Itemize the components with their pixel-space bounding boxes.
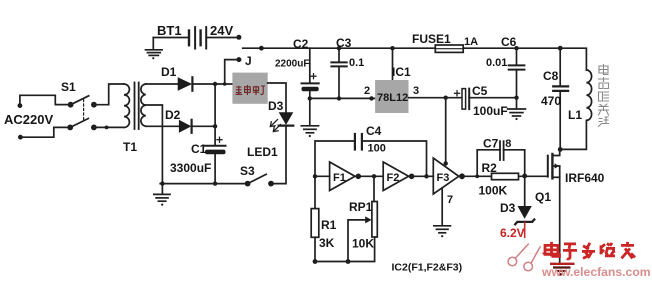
node junction VDD tap	[444, 96, 448, 100]
resistor R2	[492, 173, 519, 179]
label C4	[366, 124, 382, 138]
wire C2/C3 rail to IC1 pin2	[310, 97, 375, 99]
transistor Q1 channel bar	[551, 154, 553, 178]
svg-text:10K: 10K	[352, 237, 374, 251]
wire ground to battery negative	[153, 37, 188, 39]
ground symbol Q1 source (dark red)	[550, 264, 575, 276]
transistor Q1 source stub	[554, 176, 560, 178]
svg-text:C8: C8	[543, 69, 559, 83]
label D3 (LED)	[268, 99, 284, 113]
label F3	[437, 172, 450, 184]
transistor Q1 body stub with arrow	[554, 163, 560, 168]
svg-text:IC2(F1,F2&F3): IC2(F1,F2&F3)	[392, 262, 463, 274]
regulator IC1 box	[375, 48, 408, 113]
label 100uF	[473, 104, 508, 118]
svg-text:IC1: IC1	[392, 65, 411, 79]
battery BT1 ground symbol	[146, 38, 163, 60]
potentiometer RP1 wiper arm	[348, 216, 372, 261]
wire R2 to gate	[519, 175, 547, 177]
svg-text:7: 7	[447, 194, 453, 206]
label F2	[387, 172, 400, 184]
zener diode D3	[515, 206, 534, 224]
svg-text:Q1: Q1	[535, 190, 551, 204]
capacitor C8	[553, 48, 568, 149]
label 10K	[352, 237, 374, 251]
label 100 (C4 value)	[368, 143, 386, 155]
label RP1	[349, 200, 373, 214]
wire zener to ground (red)	[525, 223, 560, 254]
svg-text:78L12: 78L12	[377, 92, 408, 104]
label Q1	[535, 190, 551, 204]
node junction D1 output rail	[213, 82, 217, 86]
switch S3	[245, 174, 274, 186]
svg-text:BT1: BT1	[157, 23, 182, 38]
watermark elecfans logo circle	[498, 238, 544, 284]
label BT1	[157, 23, 182, 38]
node junction C3 bottom	[337, 96, 341, 100]
node junction drain / tank	[558, 147, 563, 152]
svg-text:100uF: 100uF	[473, 104, 508, 118]
wire S1 gang dotted link	[83, 100, 85, 120]
svg-text:D2: D2	[165, 108, 181, 122]
capacitor C3	[331, 48, 346, 98]
svg-text:FUSE1: FUSE1	[412, 32, 451, 46]
transistor Q1 MOSFET gate bar	[547, 156, 549, 177]
wire D1 cathode to relay box	[192, 83, 232, 85]
node AC220V input top terminal	[18, 103, 23, 108]
node junction C2 to regulator input wire	[308, 96, 312, 100]
wire zener drop	[524, 176, 526, 206]
potentiometer RP1	[372, 176, 377, 237]
svg-text:J: J	[245, 54, 252, 68]
node AC220V input bottom terminal	[18, 135, 23, 140]
capacitor C7 branch right riser	[504, 150, 525, 176]
wire relay coil J tap riser	[225, 60, 237, 84]
node junction RP1 tap	[372, 174, 376, 178]
svg-text:F2: F2	[387, 172, 400, 184]
node battery positive terminal	[236, 35, 241, 40]
svg-text:3K: 3K	[319, 236, 335, 250]
svg-text:0.1: 0.1	[349, 57, 364, 69]
node bus junction C6	[514, 46, 518, 50]
label D1	[161, 65, 177, 79]
label relay 继电器J (drawn glyphs)	[236, 86, 264, 95]
LED D3 emission arrows	[270, 120, 280, 132]
wire top bus right of fuse	[463, 48, 586, 70]
ground symbol under bus	[154, 184, 170, 206]
capacitor C6	[509, 48, 525, 97]
svg-text:RP1: RP1	[349, 200, 373, 214]
wire AC top terminal to S1 pole	[20, 95, 70, 105]
label IC2(F1,F2&F3)	[392, 262, 463, 274]
svg-text:D3: D3	[500, 201, 516, 215]
node junction wiper bottom	[346, 259, 351, 264]
label 2200uF	[275, 59, 309, 70]
node F1 output	[356, 174, 362, 180]
svg-text:R2: R2	[482, 161, 498, 175]
LED D3	[279, 112, 294, 125]
node junction F1 input	[313, 174, 317, 178]
wire AC bottom terminal to S1 pole	[20, 127, 69, 137]
label 3K	[319, 236, 335, 250]
wire IC1 pin3 output	[409, 97, 462, 99]
svg-text:T1: T1	[123, 140, 137, 154]
svg-text:C3: C3	[336, 36, 352, 50]
svg-text:0.01: 0.01	[486, 57, 507, 69]
fuse FUSE1	[435, 45, 463, 52]
label R2	[482, 161, 498, 175]
wire secondary top to D1 anode	[146, 83, 178, 85]
wire F1 input	[315, 175, 330, 177]
wire oscillator bottom rail	[315, 237, 375, 262]
node junction gate / zener	[522, 174, 527, 179]
wire C1 to ground bus	[214, 154, 216, 183]
label 电磁能发送 (vertical, drawn glyphs)	[599, 65, 609, 127]
svg-text:3300uF: 3300uF	[170, 161, 211, 175]
label 1A	[464, 36, 478, 48]
inverter F2	[383, 162, 408, 191]
label T1	[123, 140, 137, 154]
svg-text:C1: C1	[191, 142, 207, 156]
label 0.1	[349, 57, 364, 69]
wire S1 lower to transformer primary bottom	[94, 126, 124, 128]
svg-text:C7: C7	[483, 137, 499, 151]
watermark text www.elecfans.com	[541, 265, 651, 279]
watermark text 电子发烧友 (drawn glyphs)	[545, 242, 635, 259]
ground symbol under C2	[301, 126, 318, 137]
label C1	[191, 142, 207, 156]
node bus junction C3	[337, 46, 341, 50]
svg-text:1A: 1A	[464, 36, 478, 48]
svg-text:2200uF: 2200uF	[275, 59, 309, 70]
label 24V	[210, 23, 233, 38]
svg-text:24V: 24V	[210, 23, 233, 38]
svg-text:3: 3	[413, 85, 419, 97]
svg-text:C2: C2	[293, 37, 309, 51]
svg-text:470: 470	[541, 94, 561, 108]
wire ground bus	[160, 183, 247, 185]
node junction C4 feedback	[424, 174, 428, 178]
svg-text:D3: D3	[268, 99, 284, 113]
label C6	[501, 35, 517, 49]
label S1	[61, 80, 76, 94]
wire S3 to LED cathode riser	[271, 126, 286, 184]
wire F3 output to R2	[462, 175, 494, 177]
capacitor C4	[355, 134, 362, 150]
wire Q1 source down	[559, 166, 561, 262]
battery BT1 plates	[189, 27, 206, 48]
label R1	[321, 218, 337, 232]
svg-text:S3: S3	[240, 164, 255, 178]
wire C4 right to F2 output node	[362, 141, 427, 176]
wire C4 top branch	[315, 141, 355, 209]
label C3	[336, 36, 352, 50]
relay K1 box	[232, 73, 267, 104]
wire relay output to LED anode	[268, 83, 286, 112]
label 78L12	[377, 92, 408, 104]
node F2 output	[409, 174, 415, 180]
wire secondary center tap	[146, 105, 163, 184]
svg-text:F1: F1	[333, 172, 346, 184]
label C1 plus	[217, 137, 222, 142]
label 6.2V	[500, 226, 525, 240]
switch S1 (lower pole)	[67, 119, 97, 131]
wire rectifier output rail down to C1	[214, 84, 216, 145]
capacitor C1 (electrolytic)	[205, 146, 226, 155]
label pin 2	[364, 85, 370, 97]
wire secondary bottom to D2 anode	[146, 125, 179, 127]
inverter F3	[433, 158, 459, 194]
svg-text:8: 8	[505, 138, 511, 150]
transformer T1 core	[135, 83, 139, 130]
transistor Q1 drain stub	[554, 149, 560, 155]
transformer T1 primary winding	[124, 84, 129, 127]
label C5 plus	[455, 91, 460, 96]
wire VDD drop to IC2 pin 14	[445, 98, 447, 164]
svg-text:L1: L1	[568, 108, 582, 122]
ground symbol under C6	[508, 98, 526, 120]
label 3300uF	[170, 161, 211, 175]
label FUSE1	[412, 32, 451, 46]
node bus junction IC1	[390, 46, 394, 50]
node junction C7 left	[475, 174, 479, 178]
wire +24V top bus left of fuse	[243, 47, 436, 49]
wire F2 output to F3 input	[409, 175, 434, 177]
label C8	[543, 69, 559, 83]
node junction C6 bottom	[514, 96, 518, 100]
node IC1 pin2 terminal	[369, 96, 373, 100]
wire F1 output to F2 input	[355, 175, 383, 177]
svg-text:100K: 100K	[479, 184, 508, 198]
svg-text:R1: R1	[321, 218, 337, 232]
svg-text:C6: C6	[501, 35, 517, 49]
label IC1	[392, 65, 411, 79]
label S3	[240, 164, 255, 178]
svg-text:C4: C4	[366, 124, 382, 138]
inverter F1	[330, 162, 355, 191]
node junction R1 bottom	[313, 259, 318, 264]
diode D2	[179, 120, 192, 133]
svg-text:www.elecfans.com: www.elecfans.com	[541, 265, 651, 279]
wire F3 ground pin	[441, 188, 443, 226]
label J	[245, 54, 252, 68]
capacitor C2 (electrolytic)	[302, 48, 319, 125]
label C2 plus	[311, 74, 316, 79]
wire D2 cathode to rectifier rail	[192, 125, 216, 127]
label pin 3	[413, 85, 419, 97]
switch S1 (upper pole)	[68, 96, 97, 108]
node junction C1 ground	[213, 181, 217, 185]
diode D1	[178, 77, 193, 90]
wire R1 bottom to rail	[314, 237, 316, 261]
node J terminal	[236, 57, 241, 62]
transformer T1 secondary winding	[141, 84, 146, 126]
resistor R1	[311, 209, 319, 238]
node F3 output	[459, 173, 465, 179]
label IRF640	[565, 171, 605, 185]
wire battery positive stub	[206, 37, 236, 39]
svg-text:100: 100	[368, 143, 386, 155]
svg-text:C5: C5	[472, 84, 488, 98]
label 470	[541, 94, 561, 108]
node IC2 supply pin junction	[444, 161, 448, 165]
label C5	[472, 84, 488, 98]
node bus junction C8	[558, 46, 563, 51]
svg-text:S1: S1	[61, 80, 76, 94]
inductor L1	[560, 70, 591, 149]
wire S1 upper to transformer primary top	[94, 84, 124, 105]
label L1	[568, 108, 582, 122]
label C7	[483, 137, 499, 151]
label D2	[165, 108, 181, 122]
label pin 7	[447, 194, 453, 206]
svg-text:2: 2	[364, 85, 370, 97]
label AC220V	[4, 112, 53, 127]
capacitor C5 (electrolytic)	[462, 89, 517, 110]
capacitor C7 branch left riser	[477, 150, 500, 177]
label 0.01	[486, 57, 507, 69]
svg-text:LED1: LED1	[247, 145, 278, 159]
label F1	[333, 172, 346, 184]
label D3 (zener)	[500, 201, 516, 215]
svg-text:IRF640: IRF640	[565, 171, 605, 185]
node junction center-tap ground	[160, 181, 164, 185]
svg-text:F3: F3	[437, 172, 450, 184]
node junction relay J tap	[223, 82, 227, 86]
label pin 8	[505, 138, 511, 150]
capacitor C7	[500, 141, 504, 160]
label 100K	[479, 184, 508, 198]
node junction D2 cathode	[213, 124, 217, 128]
node bus junction left	[259, 46, 264, 51]
svg-text:D1: D1	[161, 65, 177, 79]
label C2	[293, 37, 309, 51]
ground symbol under F3	[434, 226, 451, 237]
label LED1	[247, 145, 278, 159]
node junction on primary bottom wire	[105, 126, 109, 130]
svg-text:AC220V: AC220V	[4, 112, 53, 127]
